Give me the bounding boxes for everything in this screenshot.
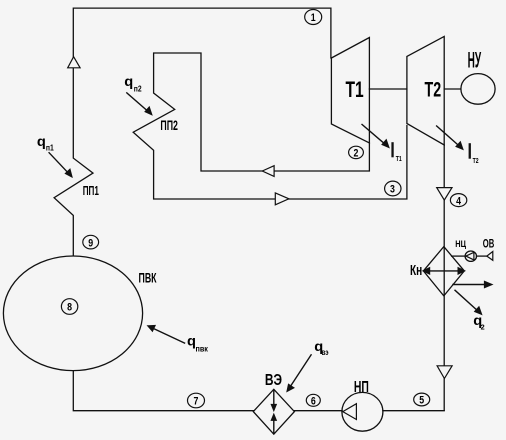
svg-text:2: 2 bbox=[481, 323, 485, 332]
svg-text:ПВК: ПВК bbox=[139, 269, 158, 286]
svg-text:q: q bbox=[187, 334, 196, 350]
svg-text:6: 6 bbox=[311, 396, 316, 408]
svg-text:вэ: вэ bbox=[322, 347, 329, 357]
svg-text:q: q bbox=[124, 74, 133, 90]
svg-text:ОВ: ОВ bbox=[483, 238, 495, 251]
svg-text:ВЭ: ВЭ bbox=[265, 370, 282, 388]
svg-text:п1: п1 bbox=[46, 143, 55, 153]
svg-text:2: 2 bbox=[354, 148, 359, 160]
svg-text:9: 9 bbox=[88, 237, 93, 249]
svg-text:НЦ: НЦ bbox=[455, 238, 466, 249]
svg-text:3: 3 bbox=[390, 184, 395, 196]
svg-text:Т1: Т1 bbox=[396, 155, 402, 163]
svg-text:Кн: Кн bbox=[410, 262, 422, 278]
svg-text:пвк: пвк bbox=[196, 344, 208, 354]
svg-text:5: 5 bbox=[419, 395, 424, 407]
svg-text:НП: НП bbox=[354, 378, 369, 396]
svg-text:4: 4 bbox=[456, 195, 461, 207]
svg-text:п2: п2 bbox=[134, 84, 142, 94]
svg-text:Т2: Т2 bbox=[425, 76, 442, 101]
svg-text:ПП1: ПП1 bbox=[83, 184, 99, 198]
svg-text:Т2: Т2 bbox=[473, 157, 479, 165]
svg-text:Т1: Т1 bbox=[346, 78, 364, 102]
svg-text:НУ: НУ bbox=[468, 47, 482, 73]
svg-text:1: 1 bbox=[311, 12, 316, 24]
svg-text:q: q bbox=[37, 134, 46, 150]
svg-text:7: 7 bbox=[194, 396, 199, 408]
svg-text:8: 8 bbox=[67, 302, 72, 314]
svg-text:ПП2: ПП2 bbox=[160, 117, 178, 134]
